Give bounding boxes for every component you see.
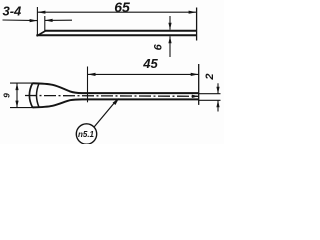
dimension line 65 — [37, 11, 196, 13]
length dim 45: left extension line — [87, 67, 89, 103]
extension line at blade tip — [36, 7, 38, 36]
dimension line 45 — [88, 73, 199, 75]
spatula top view: outer tip arc — [29, 83, 32, 107]
arrowhead 9 bottom — [15, 101, 18, 108]
extension line at bevel end — [44, 16, 46, 31]
spatula top view: top contour into shaft — [33, 83, 199, 93]
arrowhead 3-4 left (pointing right) — [30, 19, 38, 22]
blade side view: top edge — [45, 30, 197, 32]
svg-text:9: 9 — [2, 93, 12, 98]
arrowhead 45 right — [191, 73, 199, 76]
spatula top view: inner tip arc — [37, 84, 40, 108]
spatula top view: bottom contour into shaft — [33, 99, 199, 107]
arrowhead 65 right — [189, 11, 197, 14]
tail line 3-4 right arrow — [45, 19, 72, 21]
balloon circle n5.1 — [76, 124, 96, 144]
svg-text:6: 6 — [153, 43, 165, 50]
thickness dim 2: bottom extension line — [199, 99, 221, 101]
svg-text:45: 45 — [142, 56, 158, 71]
thickness dim 2: lower segment w/ up arrow — [217, 100, 219, 111]
svg-text:65: 65 — [114, 0, 130, 15]
length dim 45: right extension line / shaft end edge — [198, 64, 200, 105]
arrowhead 45 left — [88, 73, 96, 76]
width dim 9: top extension line — [10, 82, 34, 84]
blade side view: sharpened bevel — [37, 31, 46, 36]
arrowhead 3-4 right (pointing left) — [45, 19, 53, 22]
thickness dim 6: lower line w/ up arrow — [169, 36, 171, 57]
centerline end arrow at shaft tip — [192, 95, 199, 98]
arrowhead 65 left — [37, 11, 45, 14]
blade side view: right end edge / extension line — [196, 8, 198, 41]
leader line 3-4 with arrow — [3, 19, 38, 22]
centerline (dash-dot axis) — [25, 95, 199, 98]
svg-text:2: 2 — [204, 73, 216, 80]
svg-text:3-4: 3-4 — [3, 4, 23, 19]
thickness dim 2: top extension line — [199, 93, 221, 95]
width dim 9: vertical dimension line — [16, 83, 18, 108]
leader line to balloon — [94, 100, 117, 127]
svg-text:n5.1: n5.1 — [78, 130, 95, 139]
arrowhead 9 top — [15, 83, 18, 90]
thickness dim 6: upper line w/ down arrow — [169, 16, 171, 30]
leader arrowhead at shaft — [113, 98, 120, 105]
width dim 9: bottom extension line — [10, 107, 34, 109]
thickness dim 2: upper segment w/ down arrow — [217, 83, 219, 93]
blade side view: bottom edge — [36, 34, 196, 36]
